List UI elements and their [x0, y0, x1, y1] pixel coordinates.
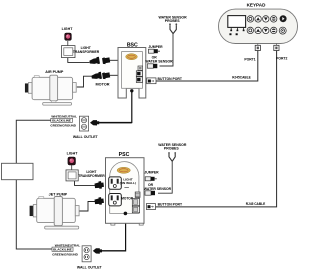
- jet pump: [30, 197, 79, 230]
- keypad PORT1 jack: [255, 44, 260, 51]
- label BLACK/LINE boxed (top outlet): [51, 118, 73, 122]
- svg-text:TRANSFORMER: TRANSFORMER: [78, 174, 105, 178]
- label JUMPER (BSC): [148, 45, 163, 49]
- label WALL OUTLET (top): [73, 135, 99, 139]
- keypad button r2c5: [279, 27, 286, 34]
- label WALL OUTLET (bottom): [77, 265, 103, 269]
- PSC button port: [146, 204, 155, 210]
- svg-text:BUTTON PORT: BUTTON PORT: [158, 77, 183, 81]
- BSC button port: [147, 78, 156, 84]
- PSC light plug: [94, 181, 104, 189]
- label LIGHT (bottom): [67, 152, 79, 156]
- svg-text:WATER SENSOR: WATER SENSOR: [145, 60, 173, 64]
- PSC connector block 2: [132, 206, 139, 213]
- keypad button r2c2: [255, 27, 261, 33]
- svg-text:BSC: BSC: [127, 42, 138, 48]
- svg-text:PROBES: PROBES: [164, 147, 179, 151]
- label WATER SENSOR PROBES (PSC): [158, 143, 187, 151]
- keypad display: [228, 16, 246, 36]
- label WHITE/NEUTRAL (top outlet): [51, 115, 77, 119]
- label WATER SENSOR (BSC): [145, 60, 173, 64]
- svg-text:BLACK/LINE: BLACK/LINE: [53, 247, 72, 251]
- plug pair 1 (light transformer to BSC): [89, 56, 110, 65]
- wire PSC light transformer cord to plug: [75, 181, 96, 186]
- keypad button r1c2: [255, 16, 261, 22]
- BSC enclosure: [118, 48, 146, 99]
- svg-text:LIGHT: LIGHT: [67, 152, 79, 156]
- water sensor probes (PSC): [168, 152, 176, 161]
- svg-text:RJ45CABLE: RJ45CABLE: [232, 76, 251, 80]
- svg-text:TRANSFORMER: TRANSFORMER: [73, 50, 100, 54]
- wire plug pair 1 to BSC: [110, 59, 119, 61]
- keypad button r1c3: [263, 16, 269, 22]
- water sensor probes (top): [169, 23, 177, 33]
- light fixture icon (top): [65, 33, 72, 46]
- label GREEN/GROUND (top outlet): [50, 123, 76, 127]
- BSC connector block C: [136, 77, 142, 83]
- label WATER SENSOR (PSC): [144, 187, 172, 191]
- bottom outlet plug: [93, 248, 126, 253]
- wire light transformer cord to plug pair (BSC light): [68, 58, 90, 63]
- svg-text:GREEN/GROUND: GREEN/GROUND: [52, 252, 78, 256]
- wire BLACK/LINE feed top outlet to junction box: [16, 120, 51, 163]
- svg-text:JUMPER: JUMPER: [144, 171, 159, 175]
- BSC power cord grommet: [130, 89, 133, 92]
- top wall outlet: [79, 116, 88, 131]
- keypad button r1c4: [271, 16, 277, 22]
- light fixture icon (bottom): [68, 157, 76, 170]
- wire PSC water sensor probes down to connector: [158, 161, 172, 193]
- svg-text:MOTOR: MOTOR: [95, 83, 109, 87]
- PSC receptacle MOTOR: [109, 194, 122, 206]
- top outlet plug: [90, 120, 132, 125]
- label PORT1: [244, 58, 255, 62]
- svg-text:AIR PUMP: AIR PUMP: [45, 70, 64, 74]
- svg-text:BUTTON PORT: BUTTON PORT: [158, 203, 183, 207]
- svg-text:WALL OUTLET: WALL OUTLET: [77, 265, 103, 269]
- plug pair 2 (air pump motor to BSC): [91, 71, 110, 80]
- label OR (PSC): [148, 183, 154, 187]
- label WHITE/NEUTRAL (bottom outlet): [55, 243, 81, 247]
- wire PSC power cord to bottom wall outlet: [100, 214, 126, 251]
- PSC inner panel with dome: [110, 162, 139, 214]
- keypad button r2c4: [271, 27, 277, 33]
- label RJ45 CABLE (bottom): [246, 202, 266, 206]
- label RJ45CABLE (top): [232, 76, 251, 80]
- PSC power cord grommet: [124, 212, 128, 216]
- label BSC: [127, 42, 138, 48]
- label GREEN/GROUND (bottom outlet): [52, 252, 78, 256]
- svg-text:GREEN/GROUND: GREEN/GROUND: [50, 123, 76, 127]
- svg-text:RJ45 CABLE: RJ45 CABLE: [246, 202, 266, 206]
- label LIGHT TRANSFORMER (top): [73, 46, 100, 54]
- keypad button r2c3: [263, 27, 269, 33]
- svg-text:PROBES: PROBES: [165, 19, 180, 23]
- svg-text:WATER SENSOR: WATER SENSOR: [144, 187, 172, 191]
- label WATER SENSOR PROBES (top): [159, 16, 188, 24]
- jumper connector (BSC): [148, 49, 160, 53]
- svg-text:KEYPAD: KEYPAD: [247, 3, 266, 8]
- label BLACK/LINE boxed (bottom outlet): [52, 247, 73, 251]
- water sensor connector (BSC): [147, 64, 157, 68]
- label LIGHT TRANSFORMER (bottom): [78, 170, 105, 178]
- PSC motor plug: [94, 197, 104, 205]
- keypad body: [219, 9, 298, 43]
- keypad button r1c1: [247, 16, 253, 22]
- svg-text:JUMPER: JUMPER: [148, 45, 163, 49]
- keypad button r1c5: [280, 15, 287, 22]
- wire keypad PORT2 to PSC button port (RJ45): [156, 51, 277, 207]
- label BUTTON PORT (PSC): [158, 203, 183, 207]
- junction box: [2, 163, 34, 179]
- svg-text:(ON WALL): (ON WALL): [120, 181, 136, 185]
- svg-text:MOTOR: MOTOR: [121, 197, 134, 201]
- label LIGHT (top): [62, 27, 74, 31]
- svg-text:BLACK/LINE: BLACK/LINE: [52, 119, 71, 123]
- PSC connector block top cap: [135, 192, 140, 197]
- keypad button r2c1: [247, 27, 253, 33]
- label JUMPER (PSC): [144, 171, 159, 175]
- label BUTTON PORT (BSC): [158, 77, 183, 81]
- svg-text:PORT1: PORT1: [244, 58, 255, 62]
- PSC enclosure: [106, 158, 145, 225]
- label PSC: [119, 152, 130, 158]
- wire jet pump motor cord to plug: [79, 202, 95, 212]
- label OR (BSC): [152, 55, 158, 59]
- svg-text:LIGHT: LIGHT: [62, 27, 74, 31]
- label LIGHT (ON WALL): [120, 178, 136, 188]
- light transformer box (bottom): [66, 170, 78, 181]
- water sensor connector (PSC): [145, 191, 155, 195]
- BSC inner panel: [122, 52, 143, 89]
- light transformer box (top): [62, 46, 76, 58]
- svg-text:OR: OR: [152, 55, 158, 59]
- bottom wall outlet: [82, 246, 91, 262]
- PSC receptacle LIGHT (ON WALL): [109, 177, 122, 189]
- label KEYPAD: [247, 3, 266, 8]
- wire junction box to bottom outlet BLACK/LINE: [16, 180, 52, 249]
- PSC logo oval: [117, 167, 130, 173]
- wire BSC button port to keypad PORT1 (RJ45): [156, 51, 258, 82]
- svg-text:WALL OUTLET: WALL OUTLET: [73, 135, 99, 139]
- label AIR PUMP: [45, 70, 64, 74]
- svg-text:PSC: PSC: [119, 152, 130, 158]
- wire BSC water sensor probes down to connector: [160, 34, 174, 67]
- BSC connector block B: [136, 71, 142, 77]
- svg-text:JET PUMP: JET PUMP: [49, 192, 68, 196]
- BSC connector block A: [138, 66, 143, 70]
- label JET PUMP: [49, 192, 68, 196]
- wire plug pair 2 to BSC: [110, 74, 119, 76]
- label PORT2: [276, 57, 287, 61]
- PSC connector block 1: [132, 199, 139, 206]
- label MOTOR (PSC): [121, 197, 134, 201]
- svg-text:PORT2: PORT2: [276, 57, 287, 61]
- keypad PORT2 jack: [274, 44, 279, 51]
- jumper connector (PSC): [145, 177, 157, 181]
- BSC logo oval: [126, 54, 138, 60]
- air pump: [25, 75, 76, 105]
- wire BSC power cord to top wall outlet: [98, 91, 132, 123]
- label MOTOR (top): [95, 83, 109, 87]
- wire air pump motor cord to plug pair: [77, 76, 92, 87]
